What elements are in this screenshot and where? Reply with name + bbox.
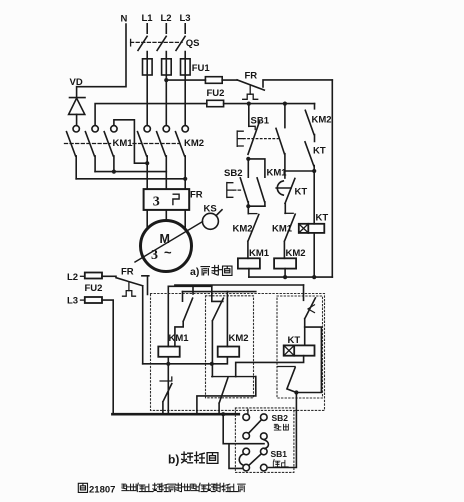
svg-text:3: 3 <box>153 195 160 210</box>
svg-text:KM1: KM1 <box>113 138 134 149</box>
wire KT b drop to SB <box>269 393 297 468</box>
motor text M <box>160 232 170 246</box>
contact FR b <box>116 276 149 364</box>
svg-text:KM1: KM1 <box>272 224 293 235</box>
wire KM2 coil to bus <box>283 269 287 280</box>
svg-text:KM2: KM2 <box>229 333 249 344</box>
contactor KM1 pole 2 blade <box>85 132 95 172</box>
button SB2 start NO <box>240 159 248 202</box>
contactor KM1 pole 1 blade <box>67 132 77 179</box>
wires FR box to motor <box>147 210 185 230</box>
button arc left <box>239 454 243 466</box>
node N <box>121 14 128 25</box>
label SB1 <box>251 116 270 127</box>
wire KM1b coil feed <box>167 286 169 346</box>
label KM1 coil <box>249 248 270 259</box>
contact KT b lower <box>278 367 297 393</box>
button SB1 stop NC <box>248 104 260 155</box>
label L3 b <box>67 296 85 307</box>
thermal relay FR box <box>144 189 190 210</box>
wire N vertical and bend to diode <box>77 24 126 98</box>
label KT coil <box>316 213 329 224</box>
button arc right <box>264 440 268 449</box>
label KT b <box>288 335 301 346</box>
contactor KM1 pole 1 terminal <box>73 126 79 132</box>
wire bus2 corner into col3 <box>314 104 316 109</box>
button terminal 3L <box>243 448 250 455</box>
label FR <box>245 71 258 82</box>
label KS <box>204 204 217 215</box>
svg-text:FU1: FU1 <box>192 63 211 74</box>
junction dot L2 tap <box>164 78 168 82</box>
contactor KM2 pole 1 blade <box>138 132 148 189</box>
fuse FU1 pole 1 <box>143 59 153 75</box>
label FR box <box>190 190 203 201</box>
switch QS pole 2 <box>157 36 166 59</box>
label b) diagram <box>168 452 218 467</box>
svg-text:~: ~ <box>164 245 172 260</box>
button SB2 bridge <box>249 420 262 433</box>
motor text 3~ <box>151 245 172 263</box>
coil KM1 b <box>158 347 179 357</box>
label KT arc <box>295 187 308 198</box>
wire top A <box>175 284 304 286</box>
label KM1 b <box>169 333 190 344</box>
wire phase L3 down <box>184 75 186 126</box>
svg-text:FR: FR <box>121 267 134 278</box>
thermal contact FR <box>237 80 332 90</box>
contact KT delayed col2 <box>285 171 295 213</box>
label KT col3 <box>313 146 326 157</box>
SB1 actuator E <box>237 131 278 146</box>
label KM1 selfhold <box>267 168 288 179</box>
svg-text:SB2: SB2 <box>272 413 289 423</box>
label KM1 interlock <box>272 224 293 235</box>
KM poles mechanical link dashed <box>65 143 181 145</box>
QS mechanical link dashed <box>131 39 182 46</box>
label VD <box>70 77 83 88</box>
node L1 <box>142 13 154 24</box>
wire phase L2 down <box>165 75 167 126</box>
button SB1 bridge <box>249 454 261 465</box>
coil KM2 <box>274 258 296 268</box>
svg-text:b): b) <box>168 453 179 467</box>
diode VD <box>69 98 85 126</box>
coil KM1 <box>238 258 260 268</box>
contactor KM2 pole 3 terminal <box>182 126 188 132</box>
svg-text:KM2: KM2 <box>184 138 204 149</box>
contactor KM2 pole 3 blade <box>176 132 186 189</box>
wire L2 stub <box>165 24 167 33</box>
svg-text:FU2: FU2 <box>85 283 103 294</box>
label FU2 <box>207 88 225 99</box>
FR b reset symbol <box>123 283 136 296</box>
contactor KM1 pole 3 terminal <box>111 126 117 132</box>
svg-text:L2: L2 <box>67 272 78 283</box>
wire control feed from KM1 pole2 top <box>95 104 207 126</box>
wire KT coil to bus <box>312 233 316 279</box>
fuse FU2 upper <box>205 77 237 84</box>
button terminal 3R <box>261 448 268 455</box>
contact KT NO col3 <box>305 142 314 171</box>
button terminal 4R <box>261 464 268 471</box>
svg-text:SB1: SB1 <box>271 449 288 459</box>
wire L2 to FR b <box>102 275 116 277</box>
svg-text:21807: 21807 <box>89 485 115 496</box>
contactor KM1 pole 2 terminal <box>92 126 98 132</box>
wire L3 down <box>102 300 113 414</box>
contact KM2 b lower <box>212 377 256 415</box>
SB2 actuator E <box>227 183 243 198</box>
wire rejoin below SB2 <box>246 202 265 208</box>
wire control top from L2 <box>166 79 205 81</box>
svg-text:KM2: KM2 <box>233 224 253 235</box>
junction dot col2 branch <box>283 102 287 106</box>
junction dot SB1 branch <box>247 102 251 106</box>
wire KT b right loop <box>294 327 321 395</box>
wire link mid <box>197 377 256 415</box>
wire KT coil feed <box>313 171 315 224</box>
svg-text:KT: KT <box>313 146 326 157</box>
svg-text:KT: KT <box>295 187 308 198</box>
button terminal 2R <box>261 433 268 440</box>
coil KT b with delay box <box>284 345 315 355</box>
label KM2 col3 <box>312 115 332 126</box>
label L2 b <box>67 272 85 283</box>
label SB2 button <box>272 413 289 430</box>
svg-text:QS: QS <box>186 38 200 49</box>
contact KM2 NO col3 <box>305 110 314 141</box>
label FU2 b <box>85 283 103 294</box>
contact KM1 b lower <box>160 377 172 414</box>
svg-text:FR: FR <box>190 190 203 201</box>
contact KM2 interlock NC <box>248 206 259 258</box>
button terminal 2L <box>243 433 250 440</box>
wire L3 stub <box>184 24 186 33</box>
wire phase L1 down <box>146 75 148 126</box>
node L3 <box>180 13 191 24</box>
svg-text:KS: KS <box>204 204 217 215</box>
wire junction col2-col3 <box>285 169 316 173</box>
wire top B <box>168 285 212 287</box>
svg-text:L1: L1 <box>142 13 154 24</box>
wire bus A poles <box>95 170 166 174</box>
contact KM1 selfhold <box>257 178 265 206</box>
contactor KM1 pole 3 blade <box>104 132 114 172</box>
speed relay KS <box>202 210 222 230</box>
KT delay arc <box>276 181 291 195</box>
svg-text:L2: L2 <box>161 13 172 24</box>
fuse FU2 b upper <box>85 273 102 279</box>
wire control right edge <box>331 80 333 277</box>
switch QS pole 3 <box>176 36 185 59</box>
svg-text:FR: FR <box>245 71 258 82</box>
FR box number 3 <box>153 195 160 210</box>
dotted enclosure KT <box>277 296 323 398</box>
label QS <box>186 38 200 49</box>
FR heater element <box>173 194 179 204</box>
label KM2 b <box>229 333 249 344</box>
coil KM2 b <box>218 347 240 357</box>
contactor KM2 pole 2 blade <box>157 132 167 189</box>
label FU1 <box>192 63 211 74</box>
coil KT with delay box <box>299 224 325 233</box>
svg-text:SB2: SB2 <box>224 168 242 179</box>
svg-text:VD: VD <box>70 77 83 88</box>
fuse FU2 b lower <box>85 297 102 303</box>
contact SB1 NO col2 <box>276 104 285 171</box>
svg-text:KM1: KM1 <box>249 248 270 259</box>
switch QS pole 1 <box>138 36 147 59</box>
fuse FU1 pole 3 <box>181 59 191 75</box>
label FR b <box>121 267 134 278</box>
button terminal 4L <box>243 464 250 471</box>
button terminal 1R <box>261 414 268 421</box>
FR reset symbol <box>243 86 258 99</box>
svg-text:N: N <box>121 14 128 25</box>
button terminal 1L <box>243 409 250 420</box>
svg-text:FU2: FU2 <box>207 88 225 99</box>
svg-text:KM1: KM1 <box>169 333 190 344</box>
motor shaft line to KS <box>135 222 203 262</box>
wire main bottom bus <box>112 413 238 416</box>
wire KM2b coil feed <box>226 292 228 347</box>
wire KM1 pole3 top loop <box>114 120 149 165</box>
wire KM1 coil to bus <box>248 269 250 278</box>
caption <box>78 483 245 495</box>
label KM2 interlock <box>233 224 253 235</box>
wire selfhold branch <box>248 159 265 177</box>
label SB2 <box>224 168 242 179</box>
contact KM1 b <box>175 292 193 347</box>
fuse FU1 pole 2 <box>162 59 172 75</box>
fuse FU2 lower <box>207 100 315 106</box>
contactor KM2 pole 2 terminal <box>163 126 169 132</box>
svg-text:L3: L3 <box>67 296 78 307</box>
label KM2 poles <box>184 138 204 149</box>
contact KT b <box>304 285 316 345</box>
wire stop button link <box>221 412 264 468</box>
contact KM2 b <box>212 286 224 376</box>
wire coil bottoms junction <box>143 357 228 414</box>
svg-text:SB1: SB1 <box>251 116 270 127</box>
label KM2 coil <box>286 248 306 259</box>
svg-text:KT: KT <box>316 213 329 224</box>
svg-text:KM2: KM2 <box>312 115 332 126</box>
button box dotted <box>235 408 294 473</box>
label a) diagram <box>190 266 232 279</box>
wire bus B poles <box>76 177 187 181</box>
dotted enclosure KM2 <box>206 296 254 398</box>
node L2 <box>161 13 172 24</box>
svg-text:a): a) <box>190 266 199 278</box>
wire KT b coil bottom <box>236 356 304 377</box>
svg-text:L3: L3 <box>180 13 191 24</box>
label KM1 poles <box>113 138 134 149</box>
dotted enclosure outer <box>151 294 325 411</box>
contact KM1 interlock NC col2 <box>284 213 295 258</box>
contactor KM2 pole 1 terminal <box>144 126 150 132</box>
label SB1 button <box>271 449 289 467</box>
wire control bottom bus <box>249 276 332 278</box>
wire L1 stub <box>146 24 148 33</box>
junction dot below SB1 <box>246 157 250 161</box>
motor M <box>141 221 192 272</box>
wire top C <box>183 285 256 294</box>
svg-text:KM2: KM2 <box>286 248 306 259</box>
svg-text:KT: KT <box>288 335 301 346</box>
